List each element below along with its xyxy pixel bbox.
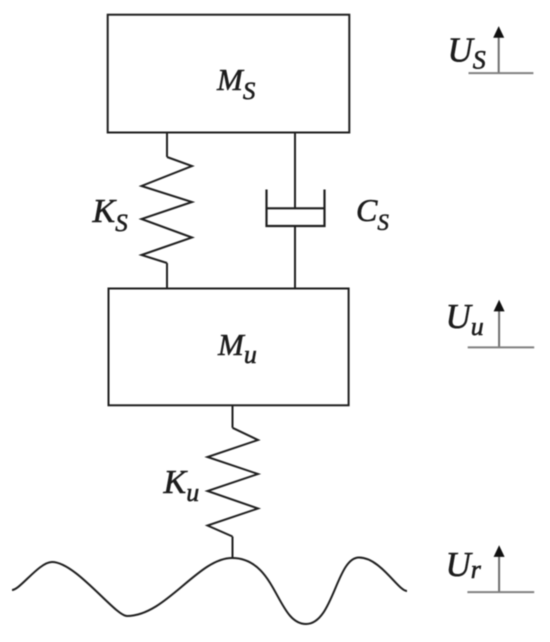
label C_S <box>356 192 389 235</box>
svg-text:CS: CS <box>356 192 389 235</box>
label U_u <box>446 297 484 341</box>
wire: M_u bottom to spring K_u top <box>232 405 234 428</box>
svg-text:Ku: Ku <box>163 464 200 507</box>
datum line U_u <box>468 346 535 348</box>
damper C_S cylinder <box>267 190 325 227</box>
wire: spring K_u bottom to road <box>232 537 234 559</box>
wire: spring K_S bottom to M_u top <box>166 263 168 289</box>
label K_S <box>92 193 129 237</box>
wire: M_S bottom to spring K_S top <box>166 133 168 158</box>
svg-text:Ur: Ur <box>446 545 482 584</box>
road profile U_r wave <box>12 558 407 625</box>
svg-text:US: US <box>448 30 486 74</box>
label K_u <box>163 464 200 507</box>
displacement arrow U_r <box>494 545 505 592</box>
label U_r <box>446 545 482 584</box>
label M_u <box>217 327 257 369</box>
displacement arrow U_u <box>494 300 505 348</box>
wire: M_S bottom to damper rod <box>294 133 296 209</box>
mass M_u block <box>109 289 349 406</box>
datum line U_S <box>469 72 534 74</box>
label M_S <box>216 62 256 105</box>
datum line U_r <box>467 591 534 593</box>
mass M_S block <box>108 15 350 133</box>
damper C_S piston plate <box>267 207 325 209</box>
wire: damper bottom to M_u top <box>294 226 296 289</box>
spring K_S <box>142 157 193 263</box>
svg-text:KS: KS <box>92 193 129 237</box>
svg-text:Uu: Uu <box>446 297 484 341</box>
svg-text:MS: MS <box>216 62 256 105</box>
svg-text:Mu: Mu <box>217 327 257 369</box>
displacement arrow U_S <box>493 26 504 73</box>
spring K_u <box>208 428 259 537</box>
label U_S <box>448 30 486 74</box>
